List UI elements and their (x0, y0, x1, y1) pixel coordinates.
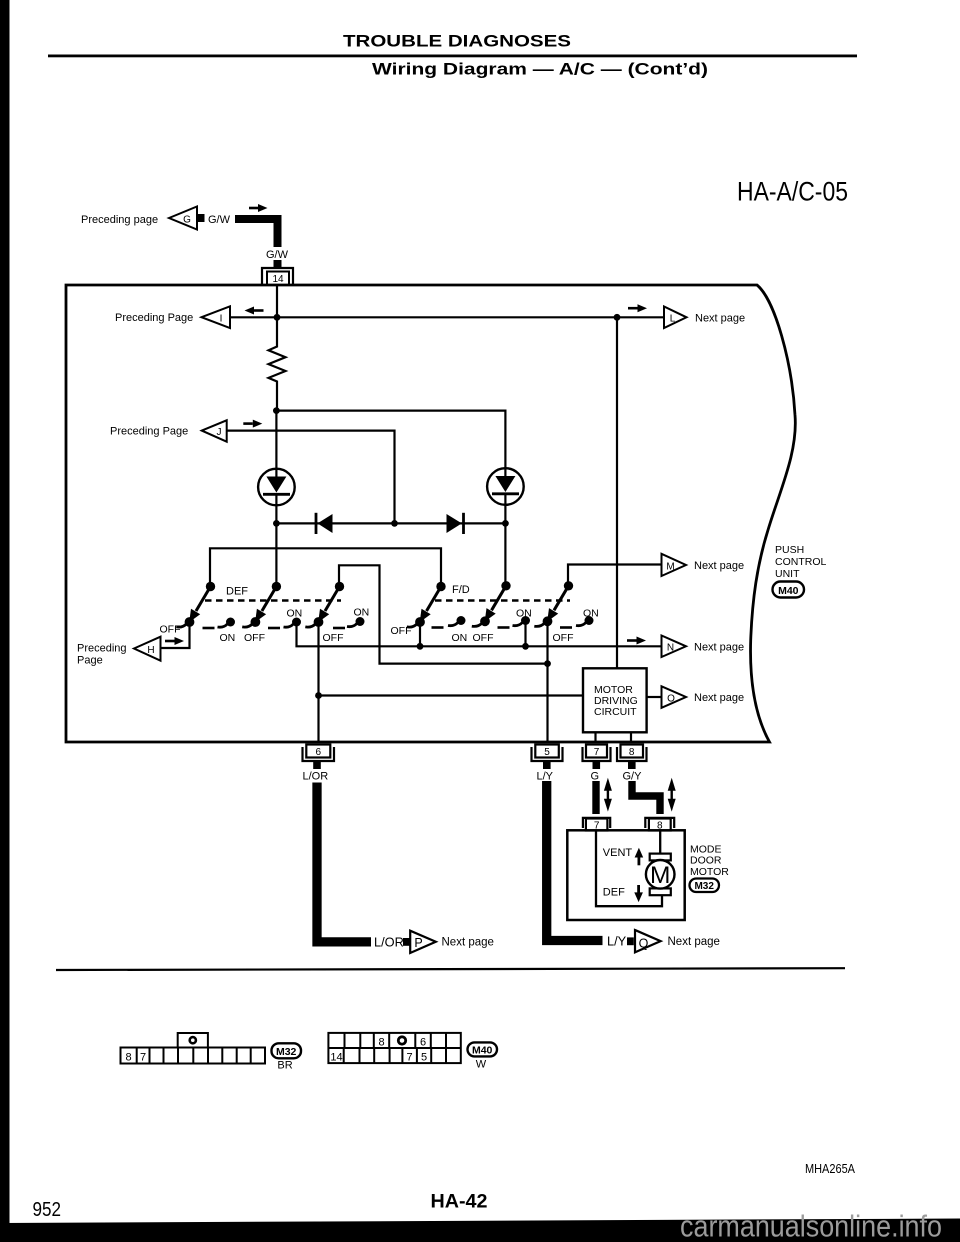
connector 7 (mode door motor) (583, 818, 610, 828)
svg-text:ON: ON (583, 608, 599, 620)
svg-text:MOTOR: MOTOR (690, 866, 729, 878)
svg-text:Next page: Next page (694, 692, 744, 704)
switch SW1L (176, 582, 215, 627)
wire diode row (276, 522, 505, 524)
wire LED1 node down to switch SW2L (275, 523, 277, 586)
wire H to SW1L off contact (161, 622, 190, 648)
wire conn7 through motor (596, 831, 662, 907)
node diode center / J drop (391, 520, 398, 527)
oval M32 (legend) (272, 1043, 302, 1058)
svg-text:OFF: OFF (244, 632, 265, 644)
arrow on L-line (628, 307, 638, 310)
header rule (48, 55, 857, 58)
connector 5 (pin on unit bottom) (532, 747, 563, 761)
node LED1 bottom (273, 520, 280, 527)
svg-text:G/W: G/W (208, 214, 231, 226)
page connector triangle M (662, 554, 687, 576)
svg-text:OFF: OFF (160, 624, 181, 636)
svg-text:BR: BR (277, 1060, 292, 1072)
contact ON (SW2R) (513, 616, 531, 626)
svg-text:7: 7 (140, 1052, 146, 1064)
up arrow (vent) (638, 856, 641, 865)
svg-text:Preceding: Preceding (77, 643, 127, 655)
svg-text:ON: ON (354, 607, 370, 619)
svg-text:DEF: DEF (226, 586, 248, 598)
double arrow beside G wire (607, 788, 609, 801)
svg-text:G: G (591, 771, 600, 783)
svg-text:L: L (670, 314, 676, 325)
svg-text:carmanualsonline.info: carmanualsonline.info (680, 1208, 942, 1242)
svg-text:P: P (414, 936, 422, 950)
svg-text:MHA265A: MHA265A (805, 1161, 855, 1176)
svg-text:L/Y: L/Y (607, 934, 627, 949)
switch SW3R (534, 581, 573, 626)
connector face M40 (bottom legend) (328, 1033, 460, 1063)
svg-text:HA-A/C-05: HA-A/C-05 (737, 177, 848, 207)
bottom black scan bar (0, 1219, 960, 1242)
separator line above footer (56, 968, 845, 970)
contact ON (SW2L) (284, 618, 302, 628)
svg-text:I: I (220, 314, 223, 325)
wire node down to connector 5 (546, 664, 548, 742)
svg-text:M40: M40 (778, 585, 799, 597)
svg-text:DEF: DEF (603, 886, 625, 898)
contact dash SW1R (432, 626, 444, 629)
svg-text:ON: ON (516, 608, 532, 620)
switch SW2L (242, 582, 281, 627)
wire connector14 down to I-line (276, 286, 278, 314)
arrow on G wire (249, 207, 258, 210)
connector 8 (mode door motor) (645, 818, 674, 828)
wire LED1 down to node (275, 505, 277, 523)
svg-text:OFF: OFF (553, 632, 574, 644)
svg-text:Preceding page: Preceding page (81, 214, 158, 226)
LED2 (indicator lamp) (487, 468, 524, 505)
motor driving circuit box (583, 668, 647, 732)
wire SW1L top to SW1R top (210, 548, 441, 586)
svg-text:OFF: OFF (323, 632, 344, 644)
svg-text:8: 8 (378, 1036, 384, 1048)
svg-text:OFF: OFF (473, 632, 494, 644)
wire motor circuit stub to connector 8 (630, 732, 632, 742)
page connector triangle L (664, 307, 687, 329)
thick wire L/OR down to P (317, 783, 371, 942)
thick wire G/Y down to mode door motor (632, 781, 660, 814)
arrow on H wire (165, 640, 175, 643)
diode D1 (points left) (315, 513, 318, 534)
wire SW1R off down to bus (419, 622, 421, 646)
push control unit box outline with torn right edge (66, 285, 795, 742)
svg-text:5: 5 (544, 747, 550, 758)
connector face M32 (bottom legend) (121, 1033, 266, 1064)
wire node to motor driving circuit (319, 694, 584, 696)
svg-text:Q: Q (639, 936, 649, 950)
svg-text:Next page: Next page (694, 642, 744, 654)
svg-text:Wiring Diagram — A/C — (Cont’d: Wiring Diagram — A/C — (Cont’d) (372, 61, 708, 79)
double arrow beside G/Y wire (671, 788, 673, 801)
node bus / SW1R off (417, 643, 424, 650)
connector id oval M40 (773, 582, 805, 598)
svg-text:ON: ON (287, 608, 303, 620)
svg-text:PUSH: PUSH (775, 544, 804, 556)
wire SW3R off down to node (546, 621, 548, 664)
svg-text:6: 6 (316, 747, 322, 758)
thick wire L/Y down to Q (547, 781, 603, 941)
contact ON (SW3R) (576, 616, 594, 626)
svg-text:Next page: Next page (695, 313, 745, 325)
connector square at G (198, 214, 205, 222)
svg-text:OFF: OFF (391, 625, 412, 637)
wire SW3L off down to connector 6 (317, 622, 319, 742)
svg-text:6: 6 (420, 1036, 426, 1048)
svg-text:M: M (666, 562, 674, 573)
svg-text:M32: M32 (276, 1046, 297, 1058)
wire J-line to diode node (227, 431, 395, 521)
svg-text:J: J (217, 427, 222, 438)
svg-text:HA-42: HA-42 (431, 1191, 488, 1213)
switch SW3L (305, 582, 344, 627)
svg-text:L/OR: L/OR (303, 771, 329, 783)
wire conn8 to motor (659, 831, 661, 854)
contact dash SW2R (498, 626, 510, 629)
svg-text:14: 14 (272, 274, 284, 285)
contact ON (SW1R) (448, 616, 466, 626)
svg-text:F/D: F/D (452, 584, 470, 596)
connector 14 (terminal on push control unit) (262, 268, 293, 285)
resistor R (vertical zigzag) (269, 317, 286, 408)
svg-text:CONTROL: CONTROL (775, 556, 826, 568)
svg-text:W: W (476, 1059, 487, 1071)
wire SW2R on down to bus (524, 621, 526, 647)
svg-text:M: M (650, 862, 670, 889)
node SW3R line (544, 660, 551, 667)
connector square at Q (627, 937, 634, 945)
connector 7 (pin on unit bottom) (583, 747, 611, 761)
svg-text:5: 5 (421, 1052, 427, 1064)
wire SW3R top to M triangle (568, 565, 662, 587)
node junction I-line / resistor (274, 314, 281, 321)
diode D2 (points right) (447, 514, 462, 533)
thick stub into connector 14 (274, 260, 282, 268)
wire motor circuit to O (647, 696, 662, 698)
svg-text:Next page: Next page (694, 560, 744, 572)
page connector triangle O (662, 686, 687, 708)
arrow on J-line (243, 422, 253, 425)
node on SW3L wire to motor circuit (315, 692, 322, 699)
left black page edge strip (0, 0, 10, 1242)
wire bus SW2L-ON to N (297, 622, 662, 646)
down arrow (def) (637, 885, 640, 894)
node junction I-line / L drop (614, 314, 621, 321)
connector square at P (403, 938, 410, 946)
svg-text:UNIT: UNIT (775, 568, 800, 580)
switch SW2R (472, 581, 511, 626)
svg-text:8: 8 (629, 747, 635, 758)
svg-text:Preceding Page: Preceding Page (110, 426, 188, 438)
mode door motor box (567, 830, 684, 920)
page connector triangle I (202, 306, 231, 328)
page connector triangle G (169, 207, 197, 230)
wire LED2 node down to switch SW2R (504, 523, 506, 586)
svg-text:M40: M40 (472, 1044, 493, 1056)
svg-text:TROUBLE DIAGNOSES: TROUBLE DIAGNOSES (343, 33, 571, 51)
wire from resistor node to LED2 (276, 411, 505, 469)
svg-text:952: 952 (33, 1199, 62, 1221)
svg-text:8: 8 (125, 1052, 131, 1064)
contact ON (SW1L) (218, 618, 236, 628)
contact ON (SW3L) (347, 617, 365, 627)
contact dash SW2L (268, 627, 280, 630)
node LED2 bottom (502, 520, 509, 527)
page connector triangle N (662, 636, 687, 658)
svg-text:7: 7 (594, 747, 600, 758)
wire motor circuit stub to connector 7 (594, 732, 596, 742)
node junction below resistor (273, 407, 280, 414)
connector 6 (pin on unit bottom) (303, 747, 335, 761)
svg-text:L/OR: L/OR (374, 934, 404, 949)
svg-text:M32: M32 (694, 881, 714, 892)
svg-text:Preceding Page: Preceding Page (115, 312, 193, 324)
svg-text:MODE: MODE (690, 843, 722, 855)
page connector triangle Q (635, 930, 661, 952)
svg-text:G/Y: G/Y (623, 771, 643, 783)
svg-text:Next page: Next page (668, 936, 720, 948)
connector 8 (pin on unit bottom) (617, 747, 647, 761)
switch SW1R (407, 582, 446, 627)
page connector triangle P (410, 931, 436, 953)
svg-text:Page: Page (77, 655, 103, 667)
svg-text:L/Y: L/Y (537, 771, 554, 783)
svg-text:7: 7 (406, 1052, 412, 1064)
node bus / SW2R on (522, 643, 529, 650)
svg-text:H: H (147, 645, 154, 656)
svg-text:VENT: VENT (603, 847, 633, 859)
thick wire G down to mode door motor (592, 781, 599, 814)
oval M40 (legend) (468, 1042, 498, 1056)
svg-text:N: N (667, 643, 674, 654)
wire I-line to L (230, 316, 664, 318)
arrow on I-line (254, 309, 264, 312)
thick wire G/W from G (235, 215, 278, 247)
contact dash SW3R (560, 626, 572, 629)
contact dash SW1L (203, 627, 215, 630)
svg-text:O: O (667, 693, 675, 704)
page connector triangle J (202, 420, 227, 441)
svg-text:CIRCUIT: CIRCUIT (594, 706, 637, 718)
arrow on bus before N (627, 639, 637, 642)
contact dash SW3L (333, 627, 345, 630)
svg-text:14: 14 (330, 1052, 342, 1064)
svg-text:G/W: G/W (266, 249, 289, 261)
wire resistor node down to LED1 (275, 411, 277, 469)
page connector triangle H (134, 637, 161, 661)
connector id oval M32 (690, 879, 720, 893)
wire L node down to motor driving circuit (616, 317, 618, 668)
svg-text:ON: ON (452, 632, 468, 644)
wire SW3L top over to down-riser and across to node (339, 565, 548, 663)
wire LED2 down to node (504, 505, 506, 524)
svg-text:Next page: Next page (442, 937, 494, 949)
motor M brushes and circle (650, 854, 671, 861)
LED1 (indicator lamp) (258, 469, 295, 506)
svg-text:G: G (183, 215, 191, 226)
dashed gang line left (205, 599, 341, 601)
svg-text:ON: ON (220, 632, 236, 644)
svg-text:DOOR: DOOR (690, 855, 722, 867)
dashed gang line right (435, 599, 570, 601)
